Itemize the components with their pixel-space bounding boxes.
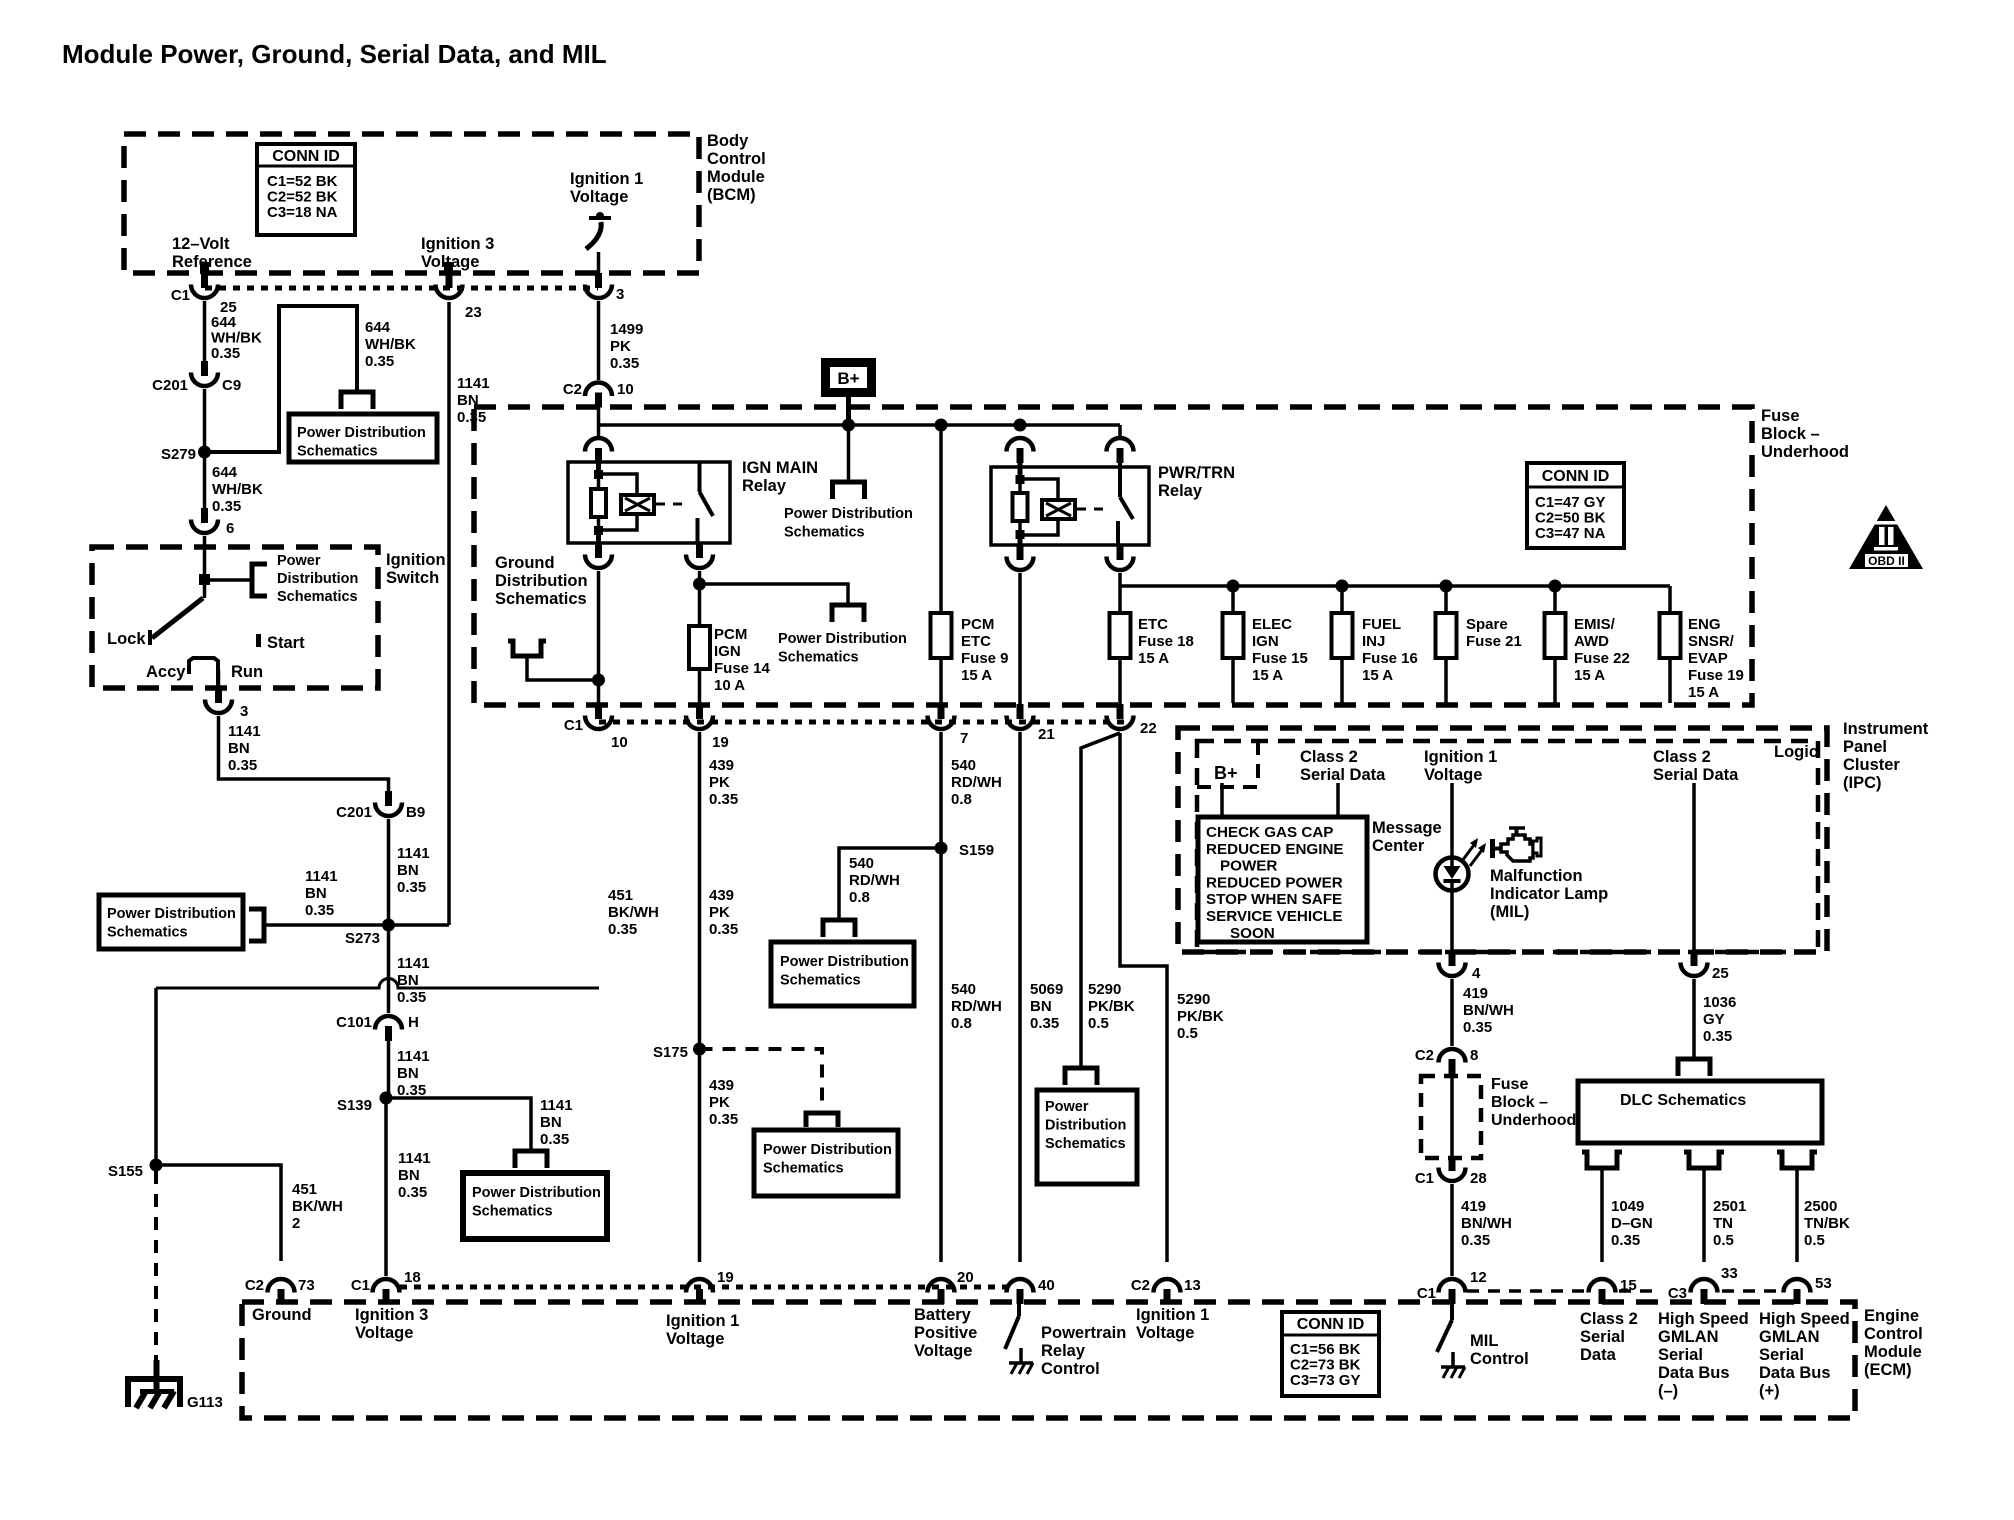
wire conn6 into ignition switch bbox=[203, 536, 207, 598]
connector relay switch top (PWR/TRN) bbox=[1107, 438, 1134, 463]
fuse ETC Fuse 18 bbox=[1110, 613, 1131, 658]
svg-text:Schematics: Schematics bbox=[495, 590, 587, 608]
svg-text:540: 540 bbox=[951, 757, 976, 774]
svg-text:SNSR/: SNSR/ bbox=[1688, 633, 1735, 650]
ground distribution bracket bbox=[508, 641, 546, 656]
svg-text:Schematics: Schematics bbox=[297, 444, 378, 460]
wire B9 to S273 bbox=[387, 819, 391, 922]
relay switch (PWR/TRN) bbox=[1118, 449, 1122, 497]
connector C3 33 (ECM) bbox=[1691, 1279, 1718, 1304]
svg-text:BN: BN bbox=[397, 1065, 419, 1082]
svg-text:Serial: Serial bbox=[1658, 1346, 1703, 1364]
svg-text:Fuse: Fuse bbox=[1761, 407, 1800, 425]
svg-text:0.35: 0.35 bbox=[1461, 1232, 1490, 1249]
svg-text:Class 2: Class 2 bbox=[1653, 748, 1711, 766]
svg-text:Relay: Relay bbox=[1158, 482, 1203, 500]
ground G113 symbol bbox=[128, 1360, 180, 1408]
svg-text:644: 644 bbox=[211, 314, 237, 331]
svg-text:1141: 1141 bbox=[305, 868, 338, 885]
svg-text:1141: 1141 bbox=[398, 1150, 431, 1167]
svg-text:Ignition 1: Ignition 1 bbox=[666, 1312, 739, 1330]
connector 15 (ECM) bbox=[1589, 1279, 1616, 1304]
svg-text:REDUCED POWER: REDUCED POWER bbox=[1206, 874, 1343, 891]
B+ power symbol box bbox=[821, 358, 876, 397]
svg-text:C3: C3 bbox=[1668, 1285, 1687, 1302]
svg-text:Run: Run bbox=[231, 663, 263, 681]
svg-text:5290: 5290 bbox=[1177, 991, 1210, 1008]
wire ignition1 into BCM edge bbox=[597, 252, 601, 273]
svg-text:644: 644 bbox=[365, 319, 391, 336]
svg-text:0.35: 0.35 bbox=[397, 879, 426, 896]
svg-text:439: 439 bbox=[709, 757, 734, 774]
svg-text:Serial: Serial bbox=[1580, 1328, 1625, 1346]
wire ETC fuse column bbox=[1118, 586, 1122, 613]
wire ground bracket to coil column bbox=[527, 656, 599, 680]
svg-text:(–): (–) bbox=[1658, 1382, 1678, 1400]
svg-text:CONN ID: CONN ID bbox=[1297, 1316, 1365, 1333]
svg-text:G113: G113 bbox=[187, 1394, 223, 1411]
wire coil bottom stub (PWR/TRN) bbox=[1018, 535, 1023, 560]
svg-text:RD/WH: RD/WH bbox=[951, 998, 1002, 1015]
svg-text:Schematics: Schematics bbox=[763, 1161, 844, 1177]
fuse block connector row dotted line bbox=[599, 720, 1125, 725]
connector 20 (ECM) bbox=[928, 1279, 955, 1304]
svg-text:Ignition 1: Ignition 1 bbox=[570, 170, 643, 188]
svg-text:CHECK GAS CAP: CHECK GAS CAP bbox=[1206, 824, 1333, 841]
svg-text:0.35: 0.35 bbox=[1463, 1019, 1492, 1036]
svg-text:Fuse: Fuse bbox=[1491, 1076, 1528, 1093]
svg-text:15 A: 15 A bbox=[1138, 650, 1169, 667]
svg-text:Indicator Lamp: Indicator Lamp bbox=[1490, 885, 1608, 903]
svg-text:Voltage: Voltage bbox=[914, 1342, 972, 1360]
splice S273 bbox=[382, 919, 395, 932]
svg-text:Module: Module bbox=[1864, 1343, 1922, 1361]
svg-text:PK/BK: PK/BK bbox=[1177, 1008, 1224, 1025]
svg-text:0.35: 0.35 bbox=[1030, 1015, 1059, 1032]
connector C2 73 (ECM) bbox=[268, 1279, 295, 1304]
junction dot ground bbox=[592, 674, 605, 687]
svg-text:Powertrain: Powertrain bbox=[1041, 1324, 1126, 1342]
svg-text:BK/WH: BK/WH bbox=[292, 1198, 343, 1215]
svg-text:C3=73 GY: C3=73 GY bbox=[1290, 1372, 1360, 1389]
wire conn19 to ECM conn19 bbox=[698, 732, 702, 1262]
wire bracket to S273 and conn23 drop bbox=[264, 923, 449, 927]
svg-text:SOON: SOON bbox=[1230, 925, 1275, 942]
B+ sub dashed box in IPC bbox=[1197, 741, 1258, 787]
svg-text:BK/WH: BK/WH bbox=[608, 904, 659, 921]
wire switch bottom to junction bbox=[698, 571, 702, 626]
svg-text:C2=73 BK: C2=73 BK bbox=[1290, 1357, 1361, 1374]
fuse FUEL INJ Fuse 16 bbox=[1332, 613, 1353, 658]
svg-text:RD/WH: RD/WH bbox=[849, 872, 900, 889]
svg-text:Module Power, Ground, Serial D: Module Power, Ground, Serial Data, and M… bbox=[62, 39, 607, 69]
connector 3 (BCM) bbox=[585, 273, 612, 298]
wire conn3 to C2-10 bbox=[597, 301, 601, 380]
wire EMIS/AWD column bbox=[1553, 586, 1557, 613]
svg-text:PK/BK: PK/BK bbox=[1088, 998, 1135, 1015]
svg-text:D–GN: D–GN bbox=[1611, 1215, 1653, 1232]
svg-text:451: 451 bbox=[292, 1181, 317, 1198]
svg-text:TN: TN bbox=[1713, 1215, 1733, 1232]
connector 19 (fuse block) bbox=[686, 704, 713, 729]
wire MIL lamp to IPC edge bbox=[1450, 890, 1454, 952]
svg-text:2501: 2501 bbox=[1713, 1198, 1746, 1215]
svg-text:Distribution: Distribution bbox=[495, 572, 588, 590]
svg-text:Power: Power bbox=[277, 553, 321, 569]
wire 644 WH/BK C1 to C201 bbox=[203, 301, 207, 362]
connector C101 H bbox=[375, 1016, 402, 1041]
wire DLC to conn 33 bbox=[1702, 1168, 1706, 1262]
svg-text:Accy: Accy bbox=[146, 663, 186, 681]
fuse ENG SNSR/EVAP Fuse 19 bbox=[1660, 613, 1681, 658]
svg-text:C2=50 BK: C2=50 BK bbox=[1535, 510, 1606, 527]
svg-text:(BCM): (BCM) bbox=[707, 186, 756, 204]
svg-text:20: 20 bbox=[957, 1269, 974, 1286]
svg-text:Power Distribution: Power Distribution bbox=[784, 506, 913, 522]
IPC outer dashed box bbox=[1178, 728, 1827, 952]
svg-text:Reference: Reference bbox=[172, 253, 252, 271]
svg-text:C2: C2 bbox=[245, 1277, 264, 1294]
svg-text:Fuse 18: Fuse 18 bbox=[1138, 633, 1194, 650]
svg-text:Ignition 1: Ignition 1 bbox=[1424, 748, 1497, 766]
connector 40 (ECM) bbox=[1007, 1279, 1034, 1304]
svg-text:0.5: 0.5 bbox=[1177, 1025, 1198, 1042]
ECM CONN ID box bbox=[1282, 1312, 1379, 1396]
svg-text:PWR/TRN: PWR/TRN bbox=[1158, 464, 1235, 482]
svg-text:C3=47 NA: C3=47 NA bbox=[1535, 525, 1606, 542]
connector relay coil top (PWR/TRN) bbox=[1007, 438, 1034, 463]
relay link dashes (IGN MAIN) bbox=[656, 503, 688, 506]
svg-text:C3=18 NA: C3=18 NA bbox=[267, 204, 338, 221]
svg-text:C1: C1 bbox=[1415, 1170, 1434, 1187]
top B+ bus bbox=[599, 423, 1121, 427]
svg-text:(MIL): (MIL) bbox=[1490, 903, 1529, 921]
svg-text:INJ: INJ bbox=[1362, 633, 1385, 650]
svg-text:Control: Control bbox=[1864, 1325, 1923, 1343]
svg-text:STOP WHEN SAFE: STOP WHEN SAFE bbox=[1206, 891, 1342, 908]
svg-text:Control: Control bbox=[1041, 1360, 1100, 1378]
svg-text:B+: B+ bbox=[1214, 763, 1238, 783]
svg-text:1049: 1049 bbox=[1611, 1198, 1644, 1215]
junction dot B+ bbox=[842, 419, 855, 432]
off-page bracket (GMLAN- out) bbox=[1684, 1152, 1724, 1168]
svg-text:RD/WH: RD/WH bbox=[951, 774, 1002, 791]
svg-text:PCM: PCM bbox=[961, 616, 994, 633]
wire S279 branch to PDS ref bbox=[205, 306, 358, 452]
svg-text:ETC: ETC bbox=[961, 633, 991, 650]
svg-text:0.35: 0.35 bbox=[1611, 1232, 1640, 1249]
connector C1 12 (ECM) bbox=[1439, 1279, 1466, 1304]
ECM connector row dotted line bbox=[400, 1285, 1012, 1290]
wire FUEL INJ column bbox=[1340, 586, 1344, 613]
wire ground horizontal with hop bbox=[156, 979, 599, 989]
svg-text:Engine: Engine bbox=[1864, 1307, 1919, 1325]
off-page bracket (5290 PDS) bbox=[1065, 1068, 1097, 1085]
connector 19 (ECM) bbox=[686, 1279, 713, 1304]
wire B+ to message center bbox=[1220, 783, 1224, 817]
svg-text:Block –: Block – bbox=[1491, 1094, 1548, 1111]
connector relay coil bottom (IGN MAIN) bbox=[585, 543, 612, 568]
svg-text:0.8: 0.8 bbox=[951, 791, 972, 808]
svg-text:Instrument: Instrument bbox=[1843, 720, 1929, 738]
svg-text:C1=56 BK: C1=56 BK bbox=[1290, 1341, 1361, 1358]
svg-text:Center: Center bbox=[1372, 837, 1425, 855]
ignition switch blade (to Lock) bbox=[152, 598, 203, 638]
connector C201 C9 bbox=[191, 361, 218, 386]
svg-text:POWER: POWER bbox=[1220, 858, 1277, 875]
svg-text:Voltage: Voltage bbox=[1424, 766, 1482, 784]
svg-text:10: 10 bbox=[611, 734, 628, 751]
off-page bracket (DLC in) bbox=[1678, 1059, 1710, 1076]
junction dot ELEC IGN bbox=[1227, 580, 1240, 593]
svg-text:C2=52 BK: C2=52 BK bbox=[267, 189, 338, 206]
off-page bracket (S175 PDS) bbox=[806, 1113, 838, 1127]
fuse block underhood dashed box bbox=[474, 407, 1752, 705]
svg-text:Schematics: Schematics bbox=[784, 525, 865, 541]
svg-text:(ECM): (ECM) bbox=[1864, 1361, 1912, 1379]
svg-text:5069: 5069 bbox=[1030, 981, 1063, 998]
svg-text:Data Bus: Data Bus bbox=[1759, 1364, 1831, 1382]
svg-text:Relay: Relay bbox=[742, 477, 787, 495]
off-page bracket (ign sw PDS) bbox=[252, 564, 267, 596]
svg-text:12: 12 bbox=[1470, 1269, 1487, 1286]
svg-text:IGN: IGN bbox=[1252, 633, 1279, 650]
svg-text:PK: PK bbox=[709, 904, 730, 921]
svg-text:Spare: Spare bbox=[1466, 616, 1508, 633]
svg-text:PK: PK bbox=[709, 774, 730, 791]
connector C201 B9 bbox=[375, 791, 402, 816]
svg-text:10: 10 bbox=[617, 381, 634, 398]
svg-text:Panel: Panel bbox=[1843, 738, 1887, 756]
svg-text:Ignition 3: Ignition 3 bbox=[421, 235, 494, 253]
svg-text:IGN MAIN: IGN MAIN bbox=[742, 459, 818, 477]
svg-text:0.35: 0.35 bbox=[228, 757, 257, 774]
ECM serial data connector dashed link bbox=[1467, 1289, 1586, 1293]
MIL lamp symbol bbox=[1436, 838, 1487, 891]
svg-text:Serial Data: Serial Data bbox=[1653, 766, 1739, 784]
svg-text:Voltage: Voltage bbox=[666, 1330, 724, 1348]
svg-text:0.35: 0.35 bbox=[709, 921, 738, 938]
svg-text:C1: C1 bbox=[171, 287, 190, 304]
svg-text:BN/WH: BN/WH bbox=[1463, 1002, 1514, 1019]
splice S279 bbox=[198, 446, 211, 459]
svg-text:CONN ID: CONN ID bbox=[1542, 468, 1610, 485]
splice S155 bbox=[150, 1159, 163, 1172]
svg-text:22: 22 bbox=[1140, 720, 1157, 737]
svg-text:439: 439 bbox=[709, 887, 734, 904]
svg-text:Voltage: Voltage bbox=[1136, 1324, 1194, 1342]
svg-text:Class 2: Class 2 bbox=[1580, 1310, 1638, 1328]
svg-text:Class 2: Class 2 bbox=[1300, 748, 1358, 766]
start contact tick bbox=[256, 634, 261, 647]
svg-text:ETC: ETC bbox=[1138, 616, 1168, 633]
svg-text:BN: BN bbox=[397, 862, 419, 879]
svg-text:S175: S175 bbox=[653, 1044, 688, 1061]
svg-text:40: 40 bbox=[1038, 1277, 1055, 1294]
svg-text:S139: S139 bbox=[337, 1097, 372, 1114]
svg-text:1141: 1141 bbox=[397, 1048, 430, 1065]
wire PWR/TRN coil bottom to conn 21 bbox=[1018, 573, 1022, 707]
svg-text:Switch: Switch bbox=[386, 569, 439, 587]
PDS box 3 (S139) bbox=[463, 1173, 607, 1239]
svg-text:0.5: 0.5 bbox=[1804, 1232, 1825, 1249]
svg-text:15 A: 15 A bbox=[1574, 667, 1605, 684]
svg-text:19: 19 bbox=[717, 1269, 734, 1286]
svg-text:13: 13 bbox=[1184, 1277, 1201, 1294]
ground symbol (powertrain relay) bbox=[1009, 1348, 1033, 1374]
MIL control switch bbox=[1450, 1303, 1454, 1320]
lock contact tick bbox=[148, 630, 152, 645]
svg-text:0.35: 0.35 bbox=[1703, 1028, 1732, 1045]
wire through MIL fuse box bbox=[1450, 1074, 1454, 1158]
stub ignition 3 bbox=[444, 262, 453, 274]
off-page bracket (B+ PDS) bbox=[833, 482, 865, 499]
wire DLC to conn 53 bbox=[1795, 1168, 1799, 1262]
connector C1 10 (fuse block) bbox=[585, 704, 612, 729]
bus corner into PWR/TRN switch bbox=[1118, 425, 1122, 436]
wire 644 WH/BK C201 to S279 bbox=[203, 389, 207, 452]
svg-text:Data Bus: Data Bus bbox=[1658, 1364, 1730, 1382]
svg-text:Distribution: Distribution bbox=[277, 571, 358, 587]
svg-text:WH/BK: WH/BK bbox=[211, 330, 262, 347]
svg-text:0.35: 0.35 bbox=[211, 345, 240, 362]
fuse PCM ETC Fuse 9 bbox=[931, 613, 952, 658]
wire conn21 to ECM conn 40 bbox=[1018, 732, 1022, 1262]
junction dot switch output bbox=[693, 578, 706, 591]
wire B+ bus to PDS bracket bbox=[847, 425, 851, 481]
svg-text:0.35: 0.35 bbox=[212, 498, 241, 515]
svg-text:Cluster: Cluster bbox=[1843, 756, 1900, 774]
connector relay switch bottom (IGN MAIN) bbox=[686, 543, 713, 568]
svg-text:4: 4 bbox=[1472, 965, 1481, 982]
svg-text:540: 540 bbox=[951, 981, 976, 998]
svg-text:PK: PK bbox=[709, 1094, 730, 1111]
svg-text:1036: 1036 bbox=[1703, 994, 1736, 1011]
svg-text:1141: 1141 bbox=[228, 723, 261, 740]
wire conn22 to ECM conn 13 bbox=[1120, 733, 1167, 1262]
svg-text:(IPC): (IPC) bbox=[1843, 774, 1882, 792]
svg-text:Logic: Logic bbox=[1774, 743, 1818, 761]
relay coil junctions (PWR/TRN) bbox=[1016, 475, 1025, 484]
svg-text:Power Distribution: Power Distribution bbox=[778, 631, 907, 647]
wire B+ bus to PCM ETC fuse bbox=[939, 425, 943, 613]
off-page bracket (S139 PDS) bbox=[515, 1151, 547, 1168]
svg-text:Serial Data: Serial Data bbox=[1300, 766, 1386, 784]
svg-text:GY: GY bbox=[1703, 1011, 1725, 1028]
svg-text:Schematics: Schematics bbox=[472, 1204, 553, 1220]
fuse ELEC IGN Fuse 15 bbox=[1223, 613, 1244, 658]
svg-text:Fuse 9: Fuse 9 bbox=[961, 650, 1009, 667]
svg-text:419: 419 bbox=[1461, 1198, 1486, 1215]
svg-text:Control: Control bbox=[707, 150, 766, 168]
svg-text:C9: C9 bbox=[222, 377, 241, 394]
svg-text:Ground: Ground bbox=[495, 554, 555, 572]
svg-text:0.35: 0.35 bbox=[398, 1184, 427, 1201]
wire conn28 to conn12 bbox=[1450, 1184, 1454, 1276]
svg-text:BN: BN bbox=[398, 1167, 420, 1184]
connector C2 10 bbox=[585, 383, 612, 408]
svg-text:C2: C2 bbox=[1131, 1277, 1150, 1294]
connector 23 (BCM) bbox=[436, 273, 463, 298]
junction dot FUEL INJ bbox=[1336, 580, 1349, 593]
svg-text:Schematics: Schematics bbox=[277, 589, 358, 605]
PDS box 4 (S159) bbox=[771, 942, 914, 1006]
svg-text:Ground: Ground bbox=[252, 1306, 312, 1324]
svg-text:REDUCED ENGINE: REDUCED ENGINE bbox=[1206, 841, 1344, 858]
wire DLC to conn 15 bbox=[1600, 1168, 1604, 1262]
svg-text:Power Distribution: Power Distribution bbox=[297, 425, 426, 441]
svg-text:WH/BK: WH/BK bbox=[365, 336, 416, 353]
svg-text:Data: Data bbox=[1580, 1346, 1617, 1364]
svg-text:0.35: 0.35 bbox=[608, 921, 637, 938]
svg-text:23: 23 bbox=[465, 304, 482, 321]
svg-text:21: 21 bbox=[1038, 726, 1055, 743]
wire S159 to ECM conn 20 bbox=[939, 848, 943, 1262]
wire S279 to conn 6 bbox=[203, 455, 207, 508]
accy contact hook bbox=[189, 658, 218, 688]
connector 22 (fuse block) bbox=[1107, 704, 1134, 729]
wire junction to PDS bracket (fuse block) bbox=[700, 584, 849, 604]
svg-text:BN/WH: BN/WH bbox=[1461, 1215, 1512, 1232]
svg-text:1141: 1141 bbox=[540, 1097, 573, 1114]
wire S139 to ECM conn 18 bbox=[384, 1098, 388, 1276]
svg-text:B9: B9 bbox=[406, 804, 425, 821]
connector 7 (fuse block) bbox=[928, 704, 955, 729]
svg-text:5290: 5290 bbox=[1088, 981, 1121, 998]
connector relay switch bottom (PWR/TRN) bbox=[1107, 545, 1134, 570]
relay coil branch (PWR/TRN) bbox=[1020, 479, 1058, 500]
wire coil bottom to conn C1-10 bbox=[597, 571, 601, 707]
powertrain relay control switch bbox=[1017, 1290, 1021, 1316]
off-page bracket (fuse block PDS) bbox=[832, 605, 864, 622]
PDS box 5 (5290) bbox=[1037, 1090, 1137, 1184]
connector 21 (fuse block) bbox=[1007, 704, 1034, 729]
connector C2 8 bbox=[1439, 1049, 1466, 1074]
svg-text:1141: 1141 bbox=[397, 845, 430, 862]
junction dot EMIS/AWD bbox=[1549, 580, 1562, 593]
svg-text:High Speed: High Speed bbox=[1759, 1310, 1850, 1328]
svg-text:Module: Module bbox=[707, 168, 765, 186]
svg-text:3: 3 bbox=[240, 703, 248, 720]
svg-text:540: 540 bbox=[849, 855, 874, 872]
off-page bracket (S159 PDS) bbox=[823, 920, 855, 937]
svg-text:25: 25 bbox=[1712, 965, 1729, 982]
svg-text:EMIS/: EMIS/ bbox=[1574, 616, 1616, 633]
svg-text:PCM: PCM bbox=[714, 626, 747, 643]
relay coil resistor (PWR/TRN) bbox=[1013, 493, 1028, 521]
connector 25 (IPC) bbox=[1681, 951, 1708, 976]
svg-text:0.35: 0.35 bbox=[610, 355, 639, 372]
svg-text:Fuse 15: Fuse 15 bbox=[1252, 650, 1308, 667]
svg-text:Relay: Relay bbox=[1041, 1342, 1086, 1360]
svg-text:B+: B+ bbox=[837, 369, 859, 388]
ground symbol (MIL control) bbox=[1441, 1352, 1465, 1378]
svg-text:0.35: 0.35 bbox=[397, 989, 426, 1006]
svg-text:SERVICE VEHICLE: SERVICE VEHICLE bbox=[1206, 908, 1342, 925]
svg-text:Body: Body bbox=[707, 132, 749, 150]
message center box bbox=[1198, 817, 1367, 942]
svg-text:Positive: Positive bbox=[914, 1324, 977, 1342]
DLC schematics box bbox=[1578, 1081, 1822, 1143]
svg-text:0.35: 0.35 bbox=[305, 902, 334, 919]
svg-text:Power: Power bbox=[1045, 1099, 1089, 1115]
svg-text:644: 644 bbox=[212, 464, 238, 481]
wire ELEC IGN column bbox=[1231, 586, 1235, 613]
engine icon bbox=[1493, 828, 1542, 861]
wire PCM ETC fuse to conn 7 bbox=[939, 658, 943, 707]
svg-text:Fuse 16: Fuse 16 bbox=[1362, 650, 1418, 667]
svg-text:Power Distribution: Power Distribution bbox=[780, 954, 909, 970]
